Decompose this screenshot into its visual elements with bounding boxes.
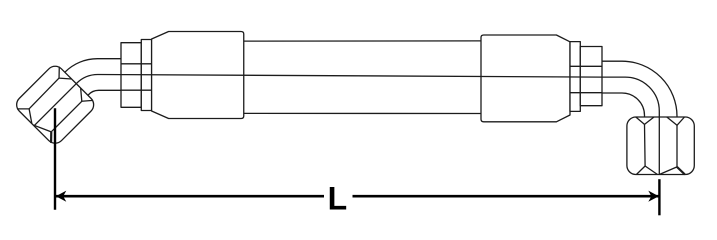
svg-text:L: L bbox=[328, 180, 348, 216]
